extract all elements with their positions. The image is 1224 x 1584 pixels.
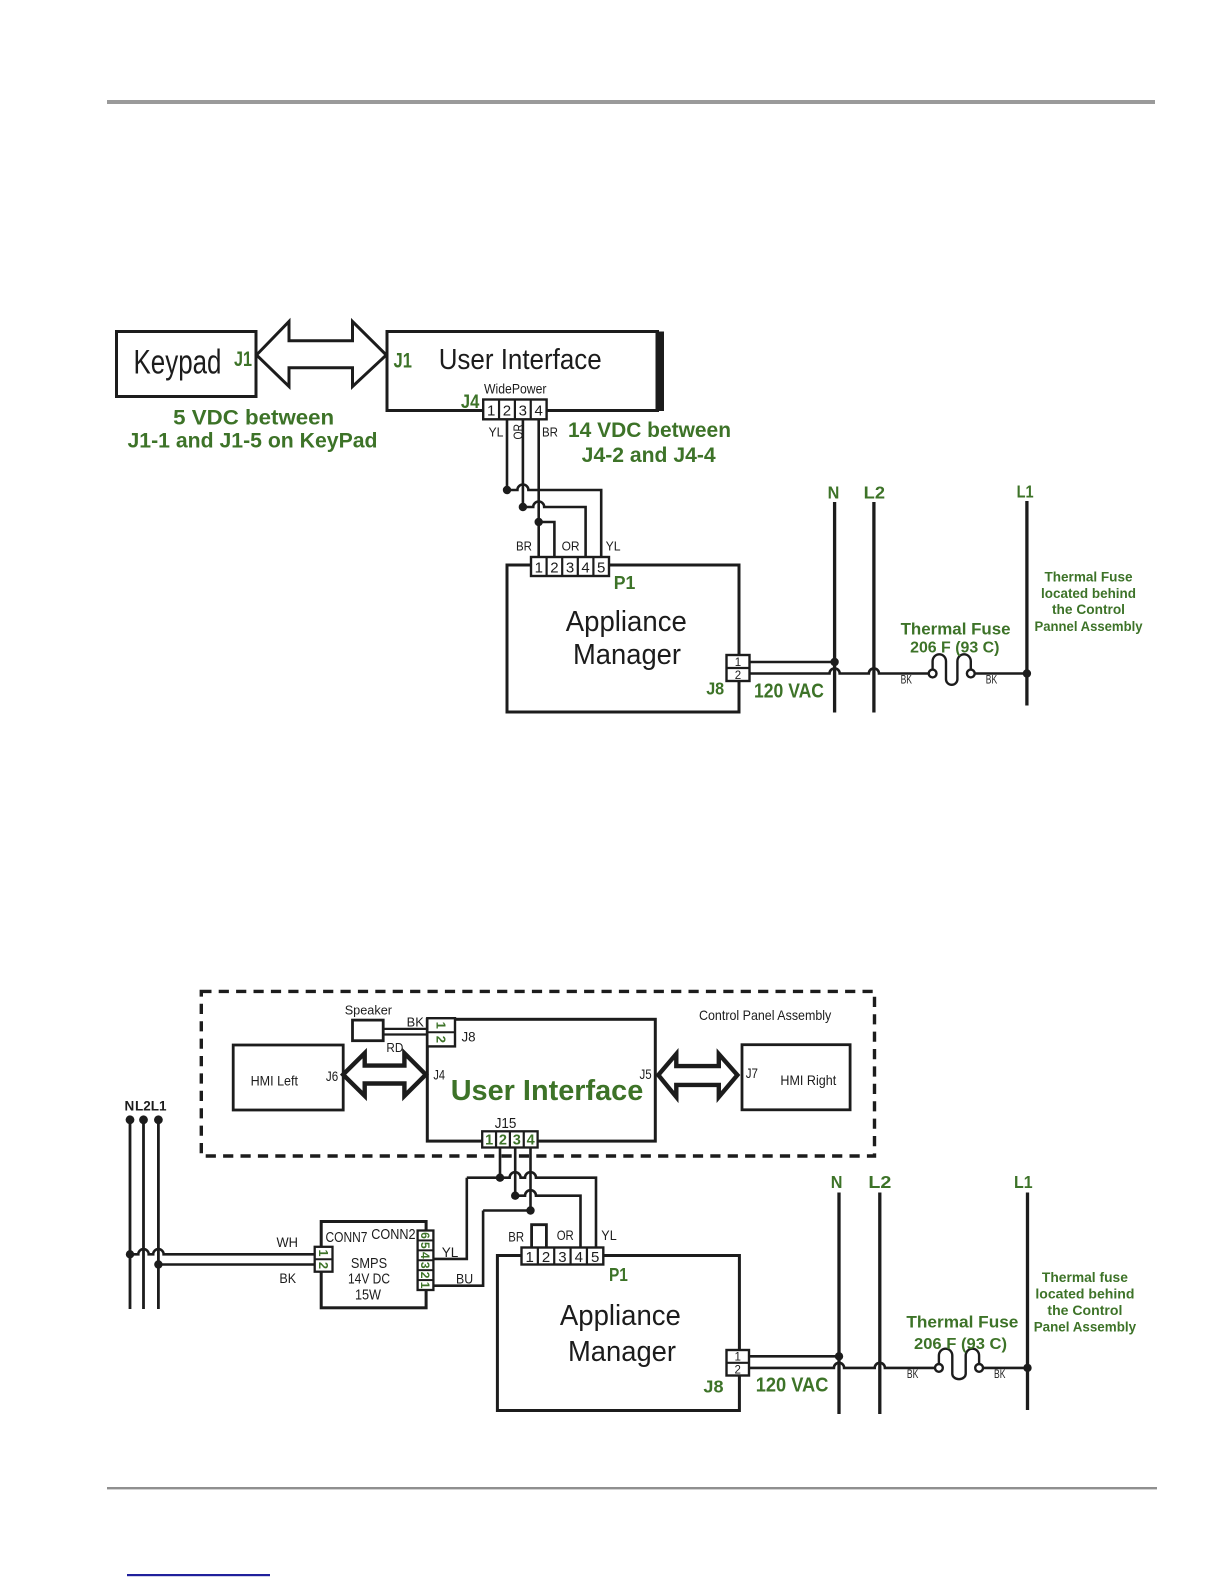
svg-text:Panel Assembly: Panel Assembly [1034,1320,1137,1335]
svg-text:HMI Left: HMI Left [251,1073,298,1089]
svg-text:CONN7: CONN7 [326,1229,368,1246]
svg-text:located behind: located behind [1041,586,1136,601]
svg-text:120 VAC: 120 VAC [754,680,824,703]
svg-text:4: 4 [575,1249,583,1266]
svg-text:Pannel Assembly: Pannel Assembly [1035,619,1143,634]
svg-text:1: 1 [316,1250,330,1257]
svg-text:14V DC: 14V DC [348,1270,390,1287]
svg-text:4: 4 [535,402,543,419]
svg-text:OR: OR [557,1227,574,1243]
svg-text:4: 4 [418,1252,432,1259]
svg-text:2: 2 [550,560,558,577]
svg-text:the Control: the Control [1047,1303,1122,1318]
svg-text:located behind: located behind [1035,1287,1134,1302]
svg-text:N: N [828,483,840,503]
svg-text:5: 5 [597,560,605,577]
svg-text:1: 1 [535,560,543,577]
svg-text:5 VDC between: 5 VDC between [173,407,334,430]
svg-text:4: 4 [527,1133,535,1149]
svg-text:the Control: the Control [1052,602,1125,617]
svg-text:5: 5 [418,1242,432,1249]
svg-text:BK: BK [986,675,998,687]
svg-text:J7: J7 [746,1065,758,1081]
svg-text:L1: L1 [1014,1172,1033,1192]
svg-text:3: 3 [513,1133,521,1149]
svg-text:2: 2 [734,1364,740,1376]
svg-text:J5: J5 [640,1066,652,1082]
svg-text:RD: RD [386,1041,403,1055]
svg-text:BR: BR [516,539,532,554]
svg-text:14 VDC between: 14 VDC between [568,419,731,442]
svg-text:BK: BK [279,1271,296,1286]
svg-text:Thermal Fuse: Thermal Fuse [1045,570,1133,585]
svg-text:1: 1 [735,657,741,669]
svg-text:YL: YL [601,1227,617,1243]
svg-text:J4: J4 [433,1067,445,1083]
svg-text:User Interface: User Interface [451,1075,644,1107]
svg-text:2: 2 [499,1133,507,1149]
svg-text:J8: J8 [703,1377,723,1397]
svg-text:BR: BR [508,1229,524,1245]
svg-text:120 VAC: 120 VAC [756,1374,829,1397]
svg-text:User Interface: User Interface [439,344,602,376]
svg-text:2: 2 [433,1036,448,1043]
svg-text:BK: BK [407,1016,425,1030]
svg-text:2: 2 [503,402,511,419]
svg-text:15W: 15W [355,1287,382,1304]
svg-text:J4-2 and J4-4: J4-2 and J4-4 [582,444,716,467]
svg-text:J4: J4 [461,391,480,413]
svg-text:YL: YL [606,539,621,554]
svg-text:BR: BR [542,425,558,440]
svg-text:3: 3 [418,1262,432,1269]
svg-text:J1: J1 [234,348,252,371]
svg-text:Appliance: Appliance [560,1300,681,1332]
svg-text:YL: YL [489,425,504,440]
svg-text:J8: J8 [462,1029,476,1045]
svg-text:OR: OR [562,539,580,554]
svg-text:2: 2 [418,1272,432,1279]
svg-text:2: 2 [735,670,741,682]
svg-text:6: 6 [418,1232,432,1239]
svg-text:Manager: Manager [568,1336,676,1368]
svg-text:L2: L2 [864,483,886,503]
svg-text:BU: BU [456,1270,473,1286]
svg-text:BK: BK [901,675,913,687]
svg-text:1: 1 [734,1352,740,1364]
svg-text:Manager: Manager [573,639,681,671]
svg-text:3: 3 [519,402,527,419]
svg-text:3: 3 [558,1249,566,1266]
svg-text:1: 1 [485,1133,493,1149]
svg-text:HMI Right: HMI Right [780,1072,836,1088]
svg-text:J1-1 and J1-5 on KeyPad: J1-1 and J1-5 on KeyPad [128,430,378,453]
svg-text:Appliance: Appliance [566,606,687,638]
svg-text:4: 4 [581,560,589,577]
svg-text:N: N [831,1172,843,1192]
svg-text:L2: L2 [868,1172,891,1192]
svg-text:BK: BK [907,1369,919,1381]
svg-text:L1: L1 [1017,482,1034,502]
svg-text:2: 2 [542,1249,550,1266]
svg-text:2: 2 [316,1262,330,1269]
svg-text:1: 1 [526,1249,534,1266]
svg-text:Control Panel Assembly: Control Panel Assembly [699,1007,831,1023]
svg-text:5: 5 [591,1249,599,1266]
svg-text:3: 3 [566,560,574,577]
svg-text:J6: J6 [326,1068,338,1084]
svg-text:WidePower: WidePower [484,382,547,397]
svg-text:Speaker: Speaker [345,1003,393,1018]
svg-text:CONN2: CONN2 [371,1226,415,1243]
svg-text:206 F (93 C): 206 F (93 C) [910,640,999,657]
svg-text:J8: J8 [706,679,724,699]
svg-text:206 F (93 C): 206 F (93 C) [914,1336,1007,1353]
svg-text:Thermal fuse: Thermal fuse [1042,1270,1128,1285]
svg-text:SMPS: SMPS [351,1255,387,1272]
svg-text:BK: BK [994,1369,1006,1381]
svg-text:N: N [125,1099,135,1114]
svg-text:Thermal Fuse: Thermal Fuse [901,621,1011,639]
svg-text:1: 1 [418,1282,432,1289]
svg-text:P1: P1 [614,572,636,593]
svg-text:J1: J1 [394,350,413,373]
svg-text:L1: L1 [151,1099,167,1114]
svg-text:Thermal Fuse: Thermal Fuse [906,1314,1018,1332]
svg-text:WH: WH [277,1235,299,1250]
svg-text:L2: L2 [135,1099,151,1114]
svg-text:Keypad: Keypad [134,344,222,382]
svg-text:1: 1 [433,1022,448,1029]
svg-text:1: 1 [487,402,495,419]
svg-text:J15: J15 [495,1115,517,1132]
svg-text:P1: P1 [609,1264,628,1285]
